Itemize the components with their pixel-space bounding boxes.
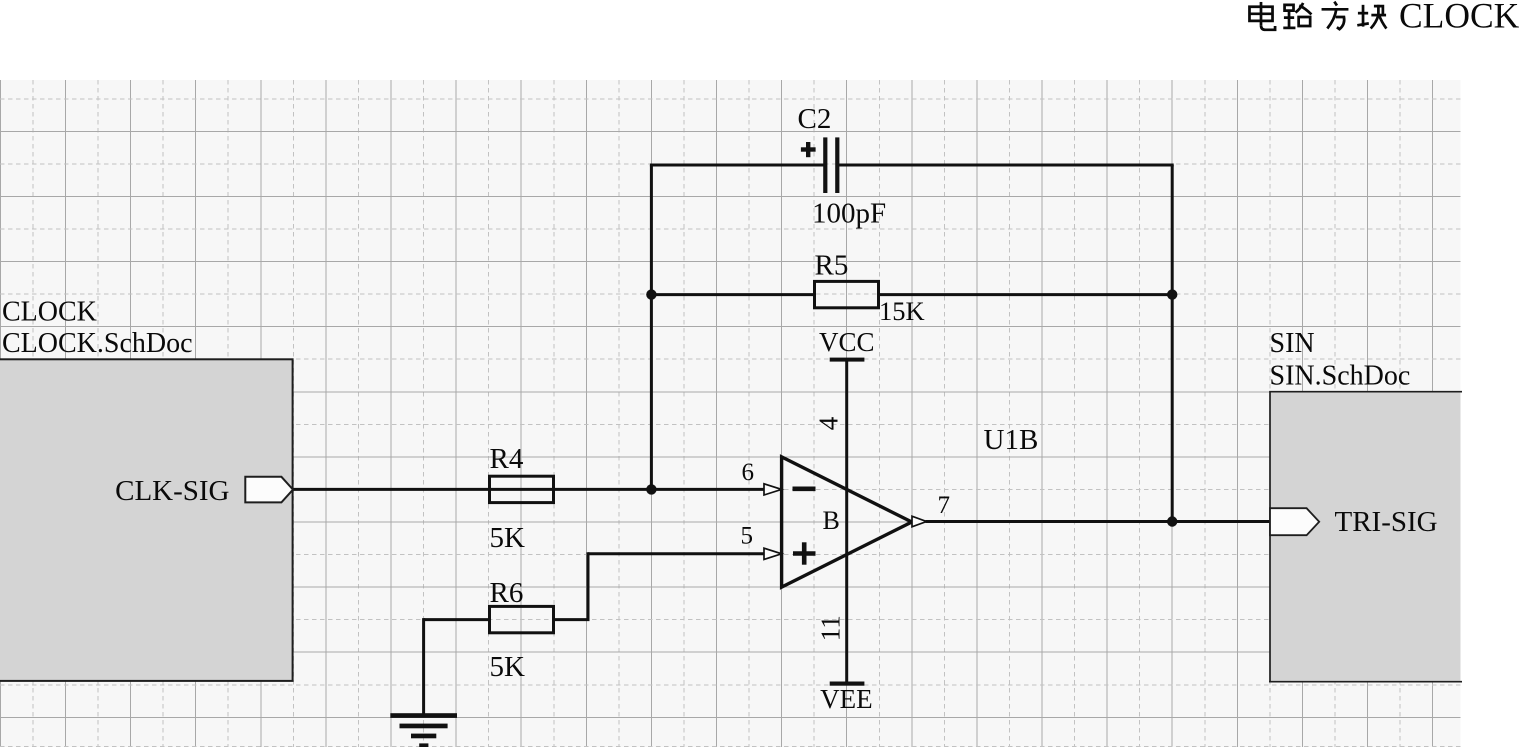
svg-text:CLOCK: CLOCK xyxy=(1399,0,1520,36)
svg-text:4: 4 xyxy=(814,416,844,430)
svg-text:R6: R6 xyxy=(490,577,524,609)
svg-text:VCC: VCC xyxy=(819,327,875,357)
svg-text:5K: 5K xyxy=(490,522,526,554)
svg-text:SIN: SIN xyxy=(1270,328,1315,359)
svg-text:SIN.SchDoc: SIN.SchDoc xyxy=(1270,361,1411,392)
svg-text:7: 7 xyxy=(938,492,951,519)
svg-text:R4: R4 xyxy=(490,443,524,475)
svg-text:6: 6 xyxy=(742,459,755,486)
svg-text:5: 5 xyxy=(741,523,754,550)
svg-text:R5: R5 xyxy=(815,250,849,282)
svg-text:100pF: 100pF xyxy=(812,198,886,230)
svg-text:VEE: VEE xyxy=(820,684,872,714)
svg-text:CLK-SIG: CLK-SIG xyxy=(115,475,229,507)
svg-text:C2: C2 xyxy=(798,103,832,135)
svg-text:U1B: U1B xyxy=(984,424,1039,456)
svg-text:CLOCK.SchDoc: CLOCK.SchDoc xyxy=(2,328,193,359)
svg-text:11: 11 xyxy=(816,615,846,641)
svg-text:CLOCK: CLOCK xyxy=(2,297,97,328)
svg-text:B: B xyxy=(823,506,840,535)
svg-text:TRI-SIG: TRI-SIG xyxy=(1335,506,1438,538)
svg-text:5K: 5K xyxy=(490,651,526,683)
svg-text:15K: 15K xyxy=(879,296,925,326)
